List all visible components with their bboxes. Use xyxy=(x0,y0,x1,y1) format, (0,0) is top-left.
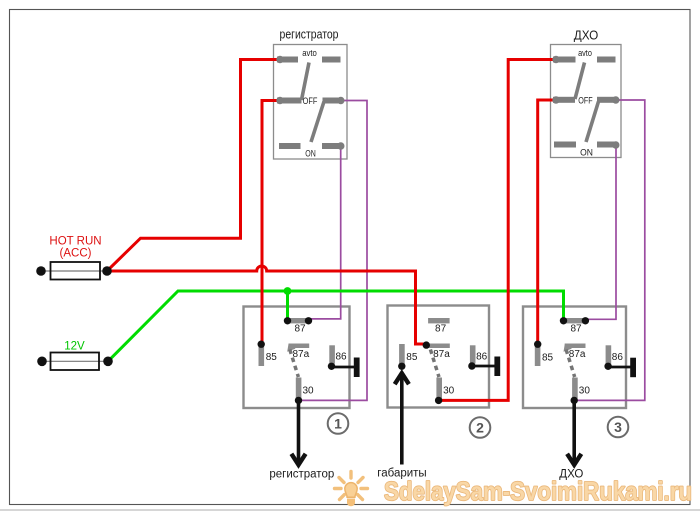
relay K3 pin dot 87-right xyxy=(582,317,589,324)
switch S1 lever upper xyxy=(302,63,310,101)
relay K3 armature dashed xyxy=(566,350,575,378)
relay K1 output arrow to регистратор xyxy=(291,400,305,464)
svg-text:85: 85 xyxy=(266,352,278,363)
switch S2 contact ON-left xyxy=(554,142,576,148)
svg-text:12V: 12V xyxy=(64,341,85,353)
relay K3 ground bar xyxy=(630,358,636,378)
relay K3 pin 30 contact bar xyxy=(572,378,578,399)
switch S1 contact ON-left xyxy=(279,143,301,149)
relay K3 box outline xyxy=(523,307,626,409)
wire red S2.OFF-left to K3.85 xyxy=(538,100,556,344)
svg-text:2: 2 xyxy=(476,420,484,436)
wire purple S2.ON-right to K3.87-right xyxy=(585,145,616,319)
fuse F1 terminal dot right xyxy=(102,266,112,276)
svg-text:86: 86 xyxy=(612,352,624,363)
switch S2 lever upper xyxy=(575,63,585,100)
wire red HOT-RUN diagonal to S1.avto-left xyxy=(107,60,280,272)
svg-text:87a: 87a xyxy=(433,349,450,360)
svg-text:ДХО: ДХО xyxy=(574,28,599,43)
switch S2 lever lower xyxy=(586,102,599,143)
switch S2 pin dot OFF-right xyxy=(612,96,619,103)
relay K1 pin 87a arrowhead xyxy=(287,343,295,351)
switch S2 contact OFF-left xyxy=(553,97,575,103)
wire red S2.avto-left to K2.30 xyxy=(439,60,556,401)
svg-text:30: 30 xyxy=(443,385,455,396)
watermark text SdelaySam-SvoimiRukami.ru xyxy=(384,476,692,506)
svg-text:avto: avto xyxy=(302,48,317,58)
switch S1 pin dot avto-left xyxy=(276,56,283,63)
switch S1 contact avto-left xyxy=(277,57,298,63)
watermark lightbulb icon xyxy=(335,472,368,507)
relay K3 ground lead xyxy=(608,366,632,369)
relay K2 number badge 2 xyxy=(470,417,491,438)
relay K1 pin 85 contact bar xyxy=(259,344,265,366)
relay K2 pin dot 30 xyxy=(435,397,442,404)
relay K3 pin 87a contact bar xyxy=(565,344,586,349)
svg-text:85: 85 xyxy=(406,352,418,363)
relay K3 pin dot 30 xyxy=(571,397,578,404)
svg-text:87: 87 xyxy=(435,324,447,335)
decorative bottom edge line xyxy=(0,509,700,511)
svg-text:HOT RUN: HOT RUN xyxy=(49,236,101,248)
fuse F2 element line xyxy=(42,360,108,362)
switch S2 contact OFF-right xyxy=(597,97,616,103)
relay K2 pin 87a contact bar xyxy=(429,344,450,349)
relay K2 pin dot 85 xyxy=(398,363,405,370)
relay K2 ground bar xyxy=(494,357,500,377)
wire purple S1.OFF-right to K1.30 xyxy=(299,101,368,401)
relay K3 pin 86 contact bar xyxy=(606,345,612,363)
svg-text:регистратор: регистратор xyxy=(280,28,339,42)
switch S1 lever lower xyxy=(311,102,324,143)
relay K3 pin dot 87-left xyxy=(560,317,567,324)
relay K2 armature dashed xyxy=(430,350,439,378)
relay K2 box outline xyxy=(388,306,490,408)
svg-text:87a: 87a xyxy=(293,349,310,360)
switch box S1 "регистратор" outline xyxy=(274,45,348,160)
svg-text:86: 86 xyxy=(476,352,488,363)
switch S1 contact avto-right xyxy=(322,57,341,63)
svg-text:87: 87 xyxy=(570,324,582,335)
relay K1 pin dot 86 xyxy=(328,363,335,370)
switch S2 pin dot avto-left xyxy=(552,56,559,63)
relay K1 box outline xyxy=(244,307,350,409)
junction green node xyxy=(284,287,292,295)
switch S2 contact avto-right xyxy=(597,57,616,63)
wire red HOT-RUN horizontal to K2.87a (with hop) xyxy=(107,266,426,344)
switch S1 pin dot OFF-left xyxy=(276,97,283,104)
relay K2 pin dot 86 xyxy=(468,362,475,369)
relay K2 pin 85 contact bar xyxy=(399,344,405,366)
switch S1 contact OFF-right xyxy=(323,98,342,104)
svg-text:87a: 87a xyxy=(569,349,586,360)
svg-text:87: 87 xyxy=(294,324,306,335)
wire purple S2.OFF-right to K3.30 xyxy=(574,100,645,400)
wire green 12V fuse to K3.87 via bus xyxy=(108,291,564,361)
switch S2 pin dot OFF-left xyxy=(552,96,559,103)
relay K3 pin 87 contact bar xyxy=(564,318,586,323)
relay K2 pin dot 87a xyxy=(423,341,430,348)
wire purple S1.ON-right to K1.87-right xyxy=(309,146,341,319)
switch S1 pin dot ON-right xyxy=(337,142,344,149)
relay K1 pin dot 30 xyxy=(295,397,302,404)
svg-text:SdelaySam-SvoimiRukami.ru: SdelaySam-SvoimiRukami.ru xyxy=(384,476,692,506)
relay K3 pin dot 86 xyxy=(604,363,611,370)
fuse F2 body xyxy=(51,353,100,371)
svg-text:30: 30 xyxy=(579,385,591,396)
svg-text:ON: ON xyxy=(305,149,316,159)
switch S2 contact ON-right xyxy=(597,142,616,148)
relay K3 pin 87a arrowhead xyxy=(564,343,572,351)
svg-text:регистратор: регистратор xyxy=(269,469,334,481)
relay K2 input arrow from габариты xyxy=(395,373,409,465)
svg-text:OFF: OFF xyxy=(303,96,318,106)
relay K1 number badge 1 xyxy=(328,413,349,434)
relay K2 ground lead xyxy=(472,365,497,368)
relay K1 pin 30 contact bar xyxy=(296,378,302,399)
svg-text:ON: ON xyxy=(580,148,593,158)
fuse F1 body xyxy=(51,262,101,280)
relay K1 pin dot 87-left xyxy=(284,317,291,324)
svg-text:avto: avto xyxy=(578,48,592,58)
svg-text:86: 86 xyxy=(336,352,348,363)
svg-text:85: 85 xyxy=(542,352,554,363)
switch S1 contact ON-right xyxy=(322,143,341,149)
svg-text:3: 3 xyxy=(614,419,622,435)
wire red S1.OFF-left to K1.85 xyxy=(262,101,280,345)
relay K3 output arrow to ДХО xyxy=(567,400,581,464)
relay K1 pin dot 85 xyxy=(258,341,265,348)
svg-text:(ACC): (ACC) xyxy=(60,248,92,260)
relay K1 pin 87a contact bar xyxy=(289,344,310,349)
relay K2 pin 86 contact bar xyxy=(470,345,476,363)
relay K1 pin 87 contact bar xyxy=(288,318,310,323)
svg-text:30: 30 xyxy=(303,385,315,396)
relay K3 pin dot 85 xyxy=(534,341,541,348)
fuse F2 terminal dot left xyxy=(37,357,47,367)
switch S2 pin dot ON-right xyxy=(612,141,619,148)
fuse F2 terminal dot right xyxy=(103,357,113,367)
relay K1 ground bar xyxy=(354,358,360,378)
relay K1 armature dashed xyxy=(290,350,299,378)
svg-text:1: 1 xyxy=(334,416,342,432)
switch box S2 "ДХО" outline xyxy=(551,45,622,158)
wire green branch to K1.87-left xyxy=(286,291,289,321)
fuse F1 terminal dot left xyxy=(36,266,46,276)
switch S1 contact OFF-left xyxy=(277,98,302,104)
relay K3 number badge 3 xyxy=(608,417,629,438)
switch S1 pin dot OFF-right xyxy=(337,97,344,104)
svg-text:OFF: OFF xyxy=(578,96,593,106)
fuse F1 element line xyxy=(41,270,107,272)
relay K2 pin 30 contact bar xyxy=(436,378,442,399)
relay K2 pin 87 contact bar xyxy=(428,318,450,323)
switch S2 contact avto-left xyxy=(553,57,576,63)
relay K1 pin dot 87-right xyxy=(305,317,312,324)
relay K1 pin 86 contact bar xyxy=(329,345,335,363)
relay K3 pin 85 contact bar xyxy=(535,344,541,366)
relay K1 ground lead xyxy=(332,366,357,369)
